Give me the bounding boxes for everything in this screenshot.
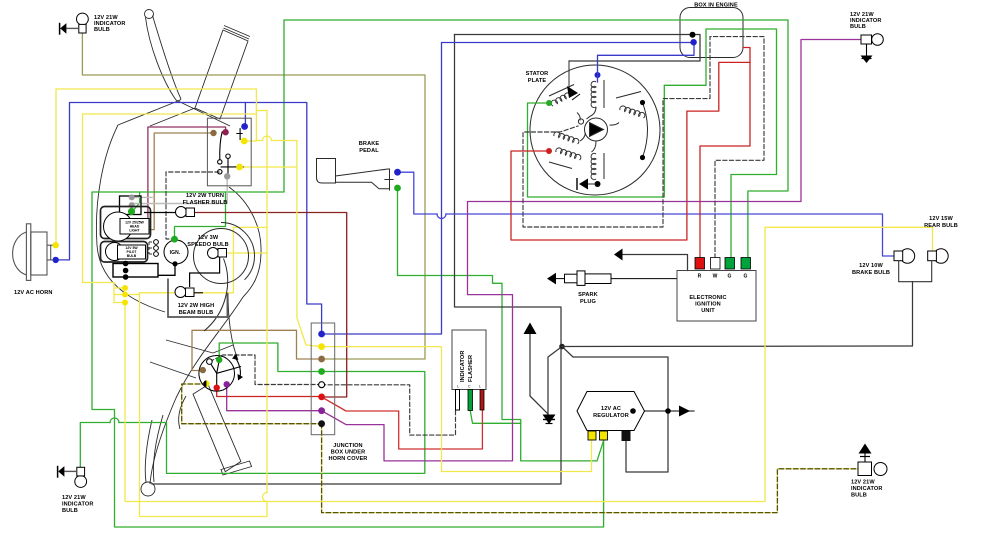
svg-text:12V 2W TURN: 12V 2W TURN bbox=[186, 193, 224, 199]
svg-text:BULB: BULB bbox=[851, 493, 867, 499]
wire red junction to flasher relay bbox=[322, 397, 483, 449]
switch box top bbox=[207, 118, 251, 186]
svg-text:W: W bbox=[713, 274, 718, 280]
wire red junction circle bbox=[217, 388, 322, 397]
dashed white: CDI W terminal to pickup bbox=[523, 37, 764, 258]
svg-text:HORN COVER: HORN COVER bbox=[329, 456, 368, 462]
yellow horn bus stubs bbox=[83, 283, 115, 303]
bottom-left indicator bulb bbox=[58, 466, 87, 488]
IGN switch circle bbox=[164, 240, 188, 264]
svg-text:BEAM BULB: BEAM BULB bbox=[179, 310, 213, 316]
wire green brake pedal to regulator bbox=[398, 189, 604, 461]
svg-text:PEDAL: PEDAL bbox=[359, 148, 379, 154]
svg-text:12V 21W: 12V 21W bbox=[62, 495, 86, 501]
svg-text:SPEEDO BULB: SPEEDO BULB bbox=[187, 242, 229, 248]
svg-text:JUNCTION: JUNCTION bbox=[333, 443, 362, 449]
svg-text:BOX IN ENGINE: BOX IN ENGINE bbox=[694, 3, 738, 9]
kill switch arrow bbox=[614, 249, 623, 261]
svg-text:IGN.: IGN. bbox=[170, 250, 181, 256]
handlebar grip right bbox=[195, 30, 248, 119]
bottom-right indicator bulb bbox=[858, 444, 887, 476]
wire purple right indicator bbox=[322, 40, 861, 461]
stator circle bbox=[530, 65, 660, 195]
svg-text:REAR BULB: REAR BULB bbox=[924, 223, 958, 229]
svg-text:BOX UNDER: BOX UNDER bbox=[331, 450, 365, 456]
svg-text:12V 3W: 12V 3W bbox=[198, 235, 219, 241]
top-left indicator bulb bbox=[60, 13, 89, 35]
svg-text:R: R bbox=[698, 274, 702, 280]
svg-text:12V AC: 12V AC bbox=[601, 406, 621, 412]
turn flasher bulb bbox=[176, 207, 195, 218]
lower connector bus bbox=[113, 264, 158, 278]
svg-text:BULB: BULB bbox=[850, 24, 866, 30]
headset body curves bbox=[96, 125, 165, 312]
handlebar V lines bbox=[178, 101, 230, 126]
wire green junction to left indicator bulb bbox=[119, 372, 425, 474]
pilot contacts bbox=[154, 240, 159, 257]
right inner arc wire bbox=[643, 103, 648, 158]
wire green flasher relay tail bbox=[470, 410, 521, 423]
svg-text:G: G bbox=[744, 274, 748, 280]
svg-text:L: L bbox=[457, 385, 459, 389]
svg-text:INDICATOR: INDICATOR bbox=[460, 351, 466, 382]
svg-text:BULB: BULB bbox=[127, 254, 137, 258]
svg-text:FLASHER: FLASHER bbox=[468, 355, 474, 382]
wire green junction circle to strip bbox=[219, 343, 321, 372]
svg-text:SPARK: SPARK bbox=[578, 292, 598, 298]
high beam bulb bbox=[175, 287, 194, 298]
switch contacts bbox=[218, 128, 244, 176]
wire green headset down to bottom rail bbox=[92, 192, 604, 527]
horn bus yellow dots bbox=[122, 285, 128, 291]
svg-text:REGULATOR: REGULATOR bbox=[593, 413, 629, 419]
speedometer bbox=[194, 229, 249, 284]
yellow long bottom rail bbox=[125, 227, 933, 501]
svg-text:BRAKE BULB: BRAKE BULB bbox=[852, 270, 890, 276]
pickup triangle bbox=[590, 123, 604, 137]
kickstart lever bbox=[193, 385, 241, 472]
svg-text:C: C bbox=[468, 385, 471, 389]
svg-text:INDICATOR: INDICATOR bbox=[62, 502, 93, 508]
yellow junction strip to regulator bbox=[322, 347, 592, 472]
lower body / legshield diagonals bbox=[166, 340, 213, 353]
svg-text:L: L bbox=[479, 385, 481, 389]
brake lever top bbox=[145, 10, 154, 19]
wire blue horn net bbox=[56, 43, 694, 335]
svg-text:12V 15W: 12V 15W bbox=[929, 216, 953, 222]
svg-text:STATOR: STATOR bbox=[526, 71, 549, 77]
wire light grey switch to headlight bbox=[132, 177, 228, 204]
svg-text:UNIT: UNIT bbox=[701, 308, 715, 314]
wire green top long: headlight to G2 terminal bbox=[134, 20, 789, 258]
pickup pole circle bbox=[578, 119, 583, 124]
wire dashed white: junction strip white circuits bbox=[166, 37, 764, 436]
pilot bulb bbox=[101, 242, 148, 263]
coil top (HT coil) bbox=[549, 80, 648, 180]
svg-text:INDICATOR: INDICATOR bbox=[851, 486, 882, 492]
bottom coil ground arrow bbox=[588, 183, 596, 185]
kickstart circle end bbox=[141, 482, 155, 496]
wire green stator to G1 terminal bbox=[528, 29, 777, 258]
wire dashed olive: rear indicator circuits bbox=[182, 384, 858, 513]
svg-text:12V 10W: 12V 10W bbox=[859, 263, 883, 269]
svg-text:BRAKE: BRAKE bbox=[359, 141, 380, 147]
headlight connector bbox=[120, 196, 142, 215]
wire dark red flasher bulb to junction bbox=[194, 213, 347, 398]
svg-text:BULB: BULB bbox=[62, 508, 78, 514]
dashed box headset switch bbox=[166, 172, 219, 239]
wire dark grey kill harness bbox=[152, 35, 913, 485]
svg-text:PLATE: PLATE bbox=[528, 78, 547, 84]
svg-text:IGNITION: IGNITION bbox=[695, 302, 721, 308]
wire purple junction circle bbox=[227, 384, 322, 410]
coil right bbox=[620, 106, 645, 118]
wire yellow horn loop bbox=[56, 89, 933, 517]
top-right indicator bulb bbox=[861, 34, 884, 63]
coil lower-left double bbox=[554, 132, 579, 144]
stator dots bbox=[595, 72, 601, 78]
wire tan headlight to switch brown dot bbox=[148, 133, 214, 230]
svg-text:G: G bbox=[728, 274, 732, 280]
kill arrow into top coil bbox=[568, 61, 570, 88]
headlight unit bbox=[101, 207, 151, 242]
wire tan headset to junction brown bbox=[192, 330, 322, 370]
ground arrows near regulator bbox=[524, 323, 537, 335]
coil upper-left (lighting) bbox=[551, 90, 575, 106]
coil bottom bbox=[591, 153, 596, 179]
svg-text:LIGHT: LIGHT bbox=[129, 229, 140, 233]
svg-text:FLASHER BULB: FLASHER BULB bbox=[183, 200, 228, 206]
speedo surround box bbox=[168, 279, 227, 318]
svg-text:PLUG: PLUG bbox=[580, 299, 596, 305]
engine connector box bbox=[680, 8, 743, 58]
wire olive top-left indicator feed bbox=[82, 33, 425, 359]
stator hub bbox=[585, 118, 608, 141]
wire red stator to CDI bbox=[511, 48, 750, 259]
svg-text:BULB: BULB bbox=[94, 27, 110, 33]
speedo bulb bbox=[208, 248, 227, 259]
svg-text:ELECTRONIC: ELECTRONIC bbox=[689, 295, 726, 301]
svg-text:12V AC HORN: 12V AC HORN bbox=[14, 290, 53, 296]
wire maroon headlight to switch bbox=[145, 127, 226, 221]
svg-text:12V 21W: 12V 21W bbox=[851, 480, 875, 486]
wire blue brake light bbox=[398, 172, 895, 256]
switch dots bbox=[210, 130, 216, 136]
wire green branch to IGN switch bbox=[175, 192, 226, 237]
svg-text:12V 2W HIGH: 12V 2W HIGH bbox=[178, 303, 215, 309]
